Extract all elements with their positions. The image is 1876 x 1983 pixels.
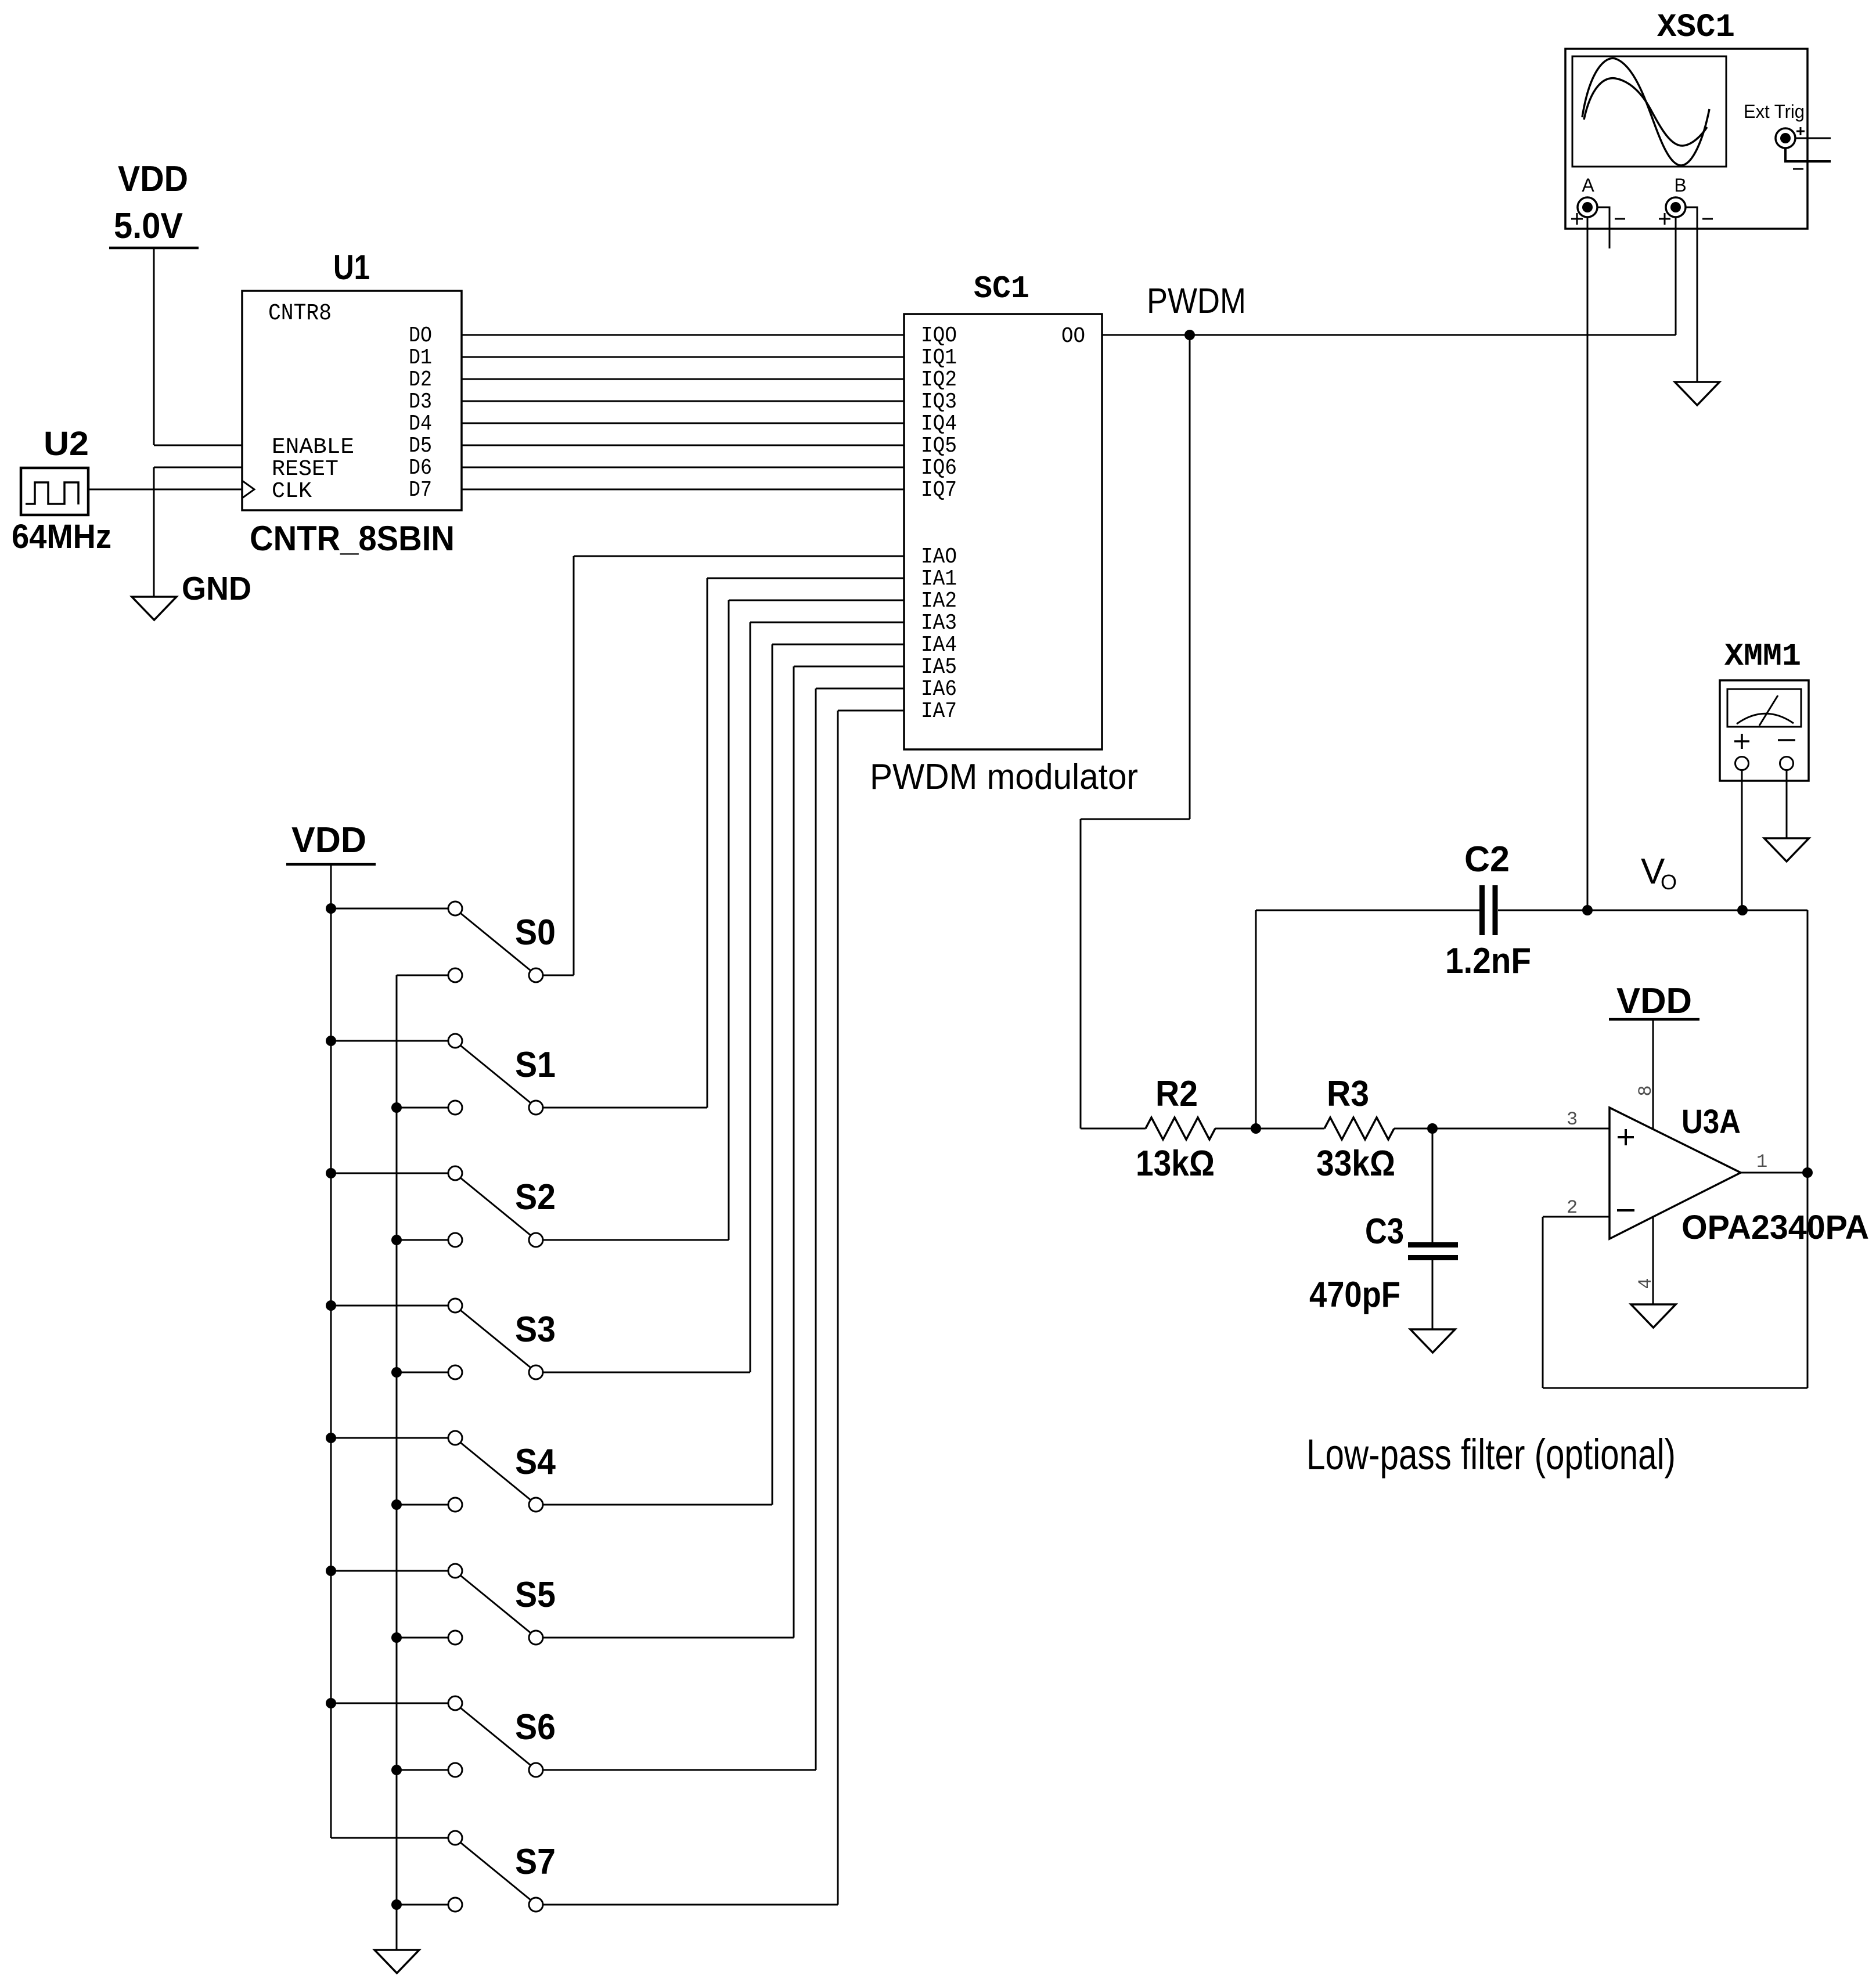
multimeter XMM1 minus [1778,739,1795,741]
clock source U2 label [44,425,89,463]
oscilloscope XSC1 screen [1572,56,1726,167]
counter U1 type CNTR8 [268,301,332,327]
multimeter XMM1 plus terminal [1735,757,1749,770]
modulator SC1 pin labels IA0-IA7 [921,545,957,724]
oscilloscope XSC1 waveform A [1582,58,1709,165]
counter U1 pin label ENABLE [272,435,354,460]
svg-text:VDD: VDD [118,159,188,199]
svg-text:R3: R3 [1327,1074,1369,1114]
multimeter XMM1 minus terminal [1780,757,1794,770]
power VDD2 label [291,820,366,860]
oscilloscope XSC1 ext trig terminal [1776,128,1795,148]
wire opamp output [1741,1172,1807,1174]
svg-text:D6: D6 [409,456,432,481]
svg-text:IQ1: IQ1 [921,345,957,370]
svg-text:IAO: IAO [921,545,957,569]
modulator SC1 label [974,271,1029,307]
wire to R2 [1081,1128,1146,1130]
modulator SC1 pin label O0 [1061,324,1085,349]
op-amp U3A label [1681,1103,1741,1141]
svg-text:IQO: IQO [921,323,957,348]
svg-text:PWDM: PWDM [1147,281,1246,320]
oscilloscope XSC1 channel B minus [1702,218,1713,220]
svg-text:IQ7: IQ7 [921,478,957,503]
clock source U2 box [21,468,88,515]
svg-text:B: B [1674,175,1686,196]
svg-text:1.2nF: 1.2nF [1445,941,1531,981]
resistor R2 label [1155,1074,1198,1114]
counter U1 label [333,248,370,287]
svg-text:CNTR_8SBIN: CNTR_8SBIN [250,519,455,558]
op-amp U3A plus input sign [1618,1129,1634,1145]
ground GND switches [375,1950,419,1973]
svg-text:IQ4: IQ4 [921,412,957,437]
svg-text:S2: S2 [515,1177,556,1217]
modulator SC1 box [904,314,1102,749]
wires D0-D7 bus [462,335,904,489]
switch S7 [331,711,904,1912]
svg-text:IA2: IA2 [921,589,957,614]
op-amp U3A part OPA2340PA [1681,1209,1869,1246]
svg-text:13kΩ: 13kΩ [1136,1144,1215,1184]
oscilloscope XSC1 channel B plus [1659,213,1670,225]
ground GND meter [1765,838,1809,861]
svg-text:2: 2 [1567,1197,1578,1218]
ground GND scope [1675,382,1720,405]
node R3-C3 junction [1427,1123,1438,1134]
counter U1 CLK wedge [242,481,254,498]
svg-text:VDD: VDD [291,820,366,860]
power VDD2 bar [286,863,376,866]
op-amp U3A pin3 number [1567,1109,1578,1130]
oscilloscope XSC1 waveform B [1584,78,1707,146]
capacitor C3 plates [1408,1245,1458,1258]
wire Vo left [1256,910,1479,911]
oscilloscope XSC1 ext trig plus [1796,127,1805,135]
oscilloscope XSC1 channel A terminal [1578,197,1597,217]
oscilloscope XSC1 ext trig minus [1793,168,1803,170]
wire B plus to PWDM [1675,217,1677,335]
oscilloscope XSC1 channel A label [1582,175,1594,196]
switch S6 [326,688,904,1777]
label CNTR_8SBIN [250,519,455,558]
modulator SC1 pin labels IQ0-IQ7 [921,323,957,503]
oscilloscope XSC1 label [1657,9,1735,46]
multimeter XMM1 plus [1734,734,1749,749]
svg-text:5.0V: 5.0V [114,206,183,246]
power VDD bar [109,247,199,250]
svg-text:IA6: IA6 [921,677,957,702]
svg-text:XMM1: XMM1 [1724,638,1801,675]
svg-text:D2: D2 [409,367,432,392]
oscilloscope XSC1 box [1565,49,1807,229]
value 470pF [1309,1275,1400,1315]
svg-text:IA3: IA3 [921,611,957,636]
wire PWDM down to filter [1081,335,1190,1128]
svg-text:C2: C2 [1464,839,1510,879]
svg-text:D4: D4 [409,412,432,437]
svg-text:RESET: RESET [272,457,339,482]
op-amp U3A VDD label [1616,981,1692,1021]
svg-text:SC1: SC1 [974,271,1029,307]
svg-text:U2: U2 [44,425,89,463]
oscilloscope XSC1 Ext Trig label [1744,101,1805,122]
caption PWDM modulator [870,757,1138,797]
wire junction up to C2 [1255,910,1257,1128]
op-amp U3A pin2 number [1567,1197,1578,1218]
wire meter plus to Vo [1741,770,1743,910]
svg-text:PWDM modulator: PWDM modulator [870,757,1138,797]
wire U2 CLK [88,489,242,491]
svg-text:OPA2340PA: OPA2340PA [1681,1209,1869,1246]
svg-text:U1: U1 [333,248,370,287]
wire VDD to ENABLE [154,248,242,445]
value 64MHz [12,518,111,556]
node PWDM junction [1184,330,1195,340]
wire GND rail [396,975,398,1950]
svg-text:R2: R2 [1155,1074,1198,1114]
op-amp U3A triangle [1609,1108,1741,1239]
wire ext trig minus stub [1785,148,1831,161]
node output junction [1802,1167,1813,1178]
op-amp U3A pin8 number [1635,1085,1657,1096]
power VDD 5.0V label [114,159,188,246]
multimeter XMM1 display [1727,689,1801,727]
op-amp U3A pin1 number [1756,1151,1767,1173]
svg-text:IQ6: IQ6 [921,456,957,481]
ground GND C3 [1410,1329,1455,1353]
svg-text:64MHz: 64MHz [12,518,111,556]
svg-text:GND: GND [182,570,251,607]
svg-text:Low-pass filter (optional): Low-pass filter (optional) [1306,1430,1676,1479]
svg-text:4: 4 [1635,1278,1657,1289]
node Vo meter junction [1737,905,1748,915]
wire ext trig plus stub [1795,138,1831,139]
svg-text:IA7: IA7 [921,699,957,724]
wire VDD2 rail [330,864,332,1838]
svg-text:3: 3 [1567,1109,1578,1130]
wire meter minus to ground [1786,770,1788,838]
caption Low-pass filter [1306,1430,1676,1479]
svg-text:S4: S4 [515,1442,556,1482]
wire A plus to Vo [1587,217,1589,910]
value 13k [1136,1144,1215,1184]
node Vo scope junction [1582,905,1593,915]
svg-text:D1: D1 [409,345,432,370]
value 33k [1316,1144,1395,1184]
oscilloscope XSC1 channel B label [1674,175,1686,196]
svg-text:S6: S6 [515,1707,556,1747]
label GND [182,570,251,607]
svg-text:U3A: U3A [1681,1103,1741,1141]
svg-text:DO: DO [409,323,432,348]
counter U1 pin label RESET [272,457,339,482]
svg-text:CNTR8: CNTR8 [268,301,332,327]
svg-text:IQ3: IQ3 [921,390,957,414]
counter U1 pin label CLK [272,479,312,504]
svg-text:1: 1 [1756,1151,1767,1173]
svg-text:S5: S5 [515,1575,556,1615]
op-amp U3A VDD bar [1609,1018,1699,1021]
op-amp U3A minus input sign [1617,1209,1634,1212]
resistor R3 [1324,1117,1394,1140]
switch S1 [326,578,904,1115]
op-amp U3A pin4 wire [1652,1217,1654,1304]
multimeter XMM1 box [1720,680,1809,781]
net label PWDM [1147,281,1246,320]
svg-text:33kΩ: 33kΩ [1316,1144,1395,1184]
op-amp U3A pin8 wire [1652,1019,1654,1129]
multimeter XMM1 label [1724,638,1801,675]
svg-text:IA5: IA5 [921,655,957,680]
svg-text:VDD: VDD [1616,981,1692,1021]
svg-text:IQ5: IQ5 [921,434,957,459]
svg-text:ENABLE: ENABLE [272,435,354,460]
wire feedback to pin2 [1543,1217,1807,1388]
oscilloscope XSC1 channel B terminal [1666,197,1686,217]
svg-text:D3: D3 [409,390,432,414]
svg-text:IA1: IA1 [921,567,957,592]
ground GND1 [132,597,177,620]
oscilloscope XSC1 channel A minus [1615,218,1625,220]
multimeter XMM1 scale arc [1737,713,1794,724]
switch S4 [326,644,904,1512]
svg-text:470pF: 470pF [1309,1275,1400,1315]
clock source U2 waveform [26,482,78,504]
node R2-R3 junction [1251,1123,1261,1134]
counter U1 box [242,291,462,510]
switch S3 [326,622,904,1379]
oscilloscope XSC1 channel A plus [1571,213,1583,225]
svg-text:S0: S0 [515,913,556,953]
wire R2 to R3 [1215,1128,1324,1130]
switch S0 [326,556,904,982]
capacitor C2 plates [1482,885,1496,935]
switch S5 [326,666,904,1645]
resistor R2 [1146,1117,1215,1140]
wire Vo right [1498,910,1807,911]
wire junction to C3 [1432,1128,1434,1242]
resistor R3 label [1327,1074,1369,1114]
svg-text:S3: S3 [515,1310,556,1350]
wire A minus stub [1597,207,1609,248]
svg-text:S1: S1 [515,1045,556,1085]
svg-text:XSC1: XSC1 [1657,9,1735,46]
svg-text:D7: D7 [409,478,432,503]
value 1.2nF [1445,941,1531,981]
capacitor C2 label [1464,839,1510,879]
svg-text:D5: D5 [409,434,432,459]
svg-text:A: A [1582,175,1594,196]
svg-text:IA4: IA4 [921,633,957,658]
ground GND opamp [1631,1304,1676,1328]
svg-text:8: 8 [1635,1085,1657,1096]
switch S2 [326,600,904,1247]
svg-text:CLK: CLK [272,479,312,504]
svg-text:Ext Trig: Ext Trig [1744,101,1805,122]
wire R3 to opamp [1394,1128,1609,1130]
net label Vo [1641,852,1677,894]
capacitor C3 label [1365,1212,1404,1252]
svg-text:OO: OO [1061,324,1085,349]
wire O0 PWDM to scope B [1102,334,1676,336]
wire C3 to ground [1432,1260,1434,1329]
wire RESET to GND [154,467,242,597]
op-amp U3A pin4 number [1635,1278,1657,1289]
counter U1 pin labels D0-D7 [409,323,432,503]
wire B minus to ground [1686,207,1697,382]
svg-text:IQ2: IQ2 [921,367,957,392]
multimeter XMM1 needle [1759,695,1778,726]
svg-text:O: O [1661,870,1677,894]
wire output up to Vo [1807,910,1809,1388]
svg-text:C3: C3 [1365,1212,1404,1252]
svg-text:S7: S7 [515,1842,556,1882]
